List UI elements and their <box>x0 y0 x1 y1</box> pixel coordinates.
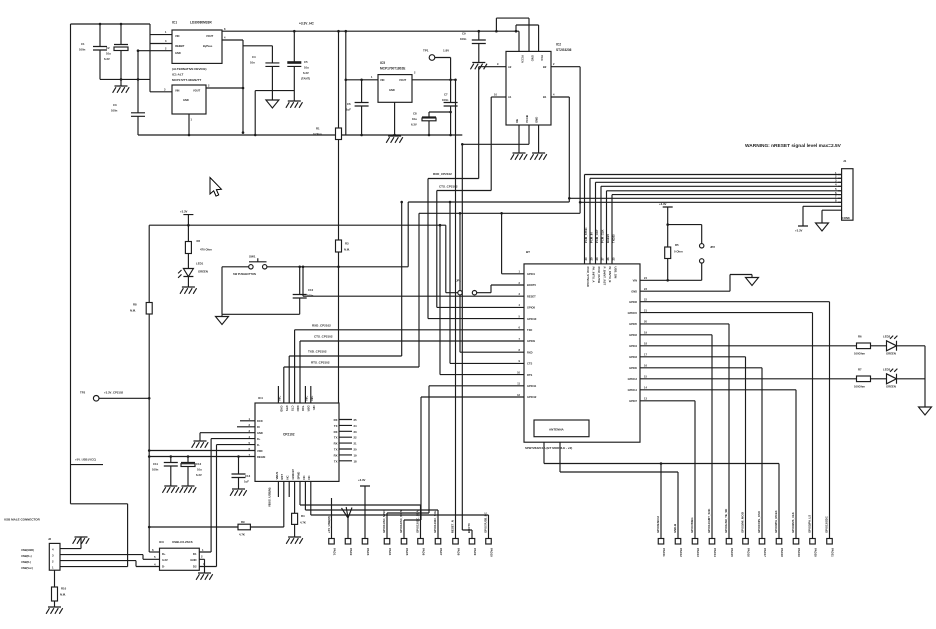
wire bus run 2 <box>419 213 580 367</box>
capacitor C6 <box>355 80 369 135</box>
svg-text:100Ohm: 100Ohm <box>854 385 866 389</box>
svg-text:6.3V: 6.3V <box>303 71 309 75</box>
capacitor C13 <box>232 457 246 490</box>
svg-text:D-: D- <box>257 443 260 447</box>
svg-text:(TANT): (TANT) <box>301 77 310 81</box>
svg-text:GPIO15/PL_USO: GPIO15/PL_USO <box>757 510 761 533</box>
svg-text:N/C: N/C <box>312 406 316 411</box>
wire IC1-ALT pin2 <box>206 87 243 89</box>
svg-text:ST2G3236: ST2G3236 <box>556 48 572 52</box>
connector J2 <box>49 543 60 570</box>
svg-text:1.8V: 1.8V <box>443 49 449 53</box>
power +3.3V tap LED1 <box>183 215 193 242</box>
BT pin numbers right <box>644 276 647 401</box>
regulator IC5 <box>378 75 412 103</box>
pad wire 1 <box>331 498 333 539</box>
svg-text:CTS: CTS <box>290 406 294 412</box>
svg-text:CTS: CTS <box>527 362 532 366</box>
wire J1 +3.3V <box>798 206 838 226</box>
svg-text:TP2: TP2 <box>80 391 86 395</box>
svg-text:C12: C12 <box>196 462 202 466</box>
svg-text:1uF: 1uF <box>244 480 249 484</box>
wire C1-C2 bottom <box>100 78 150 80</box>
wire CP2102 D- <box>217 444 256 446</box>
wire bus w4 <box>601 186 842 264</box>
svg-text:C1: C1 <box>81 42 85 46</box>
svg-text:TXD_CP2102: TXD_CP2102 <box>308 350 327 354</box>
svg-text:GPIO13: GPIO13 <box>628 377 638 381</box>
svg-text:C5: C5 <box>304 60 308 64</box>
svg-text:GPIO12/SC_MOSI: GPIO12/SC_MOSI <box>399 509 403 533</box>
svg-text:USB MALE CONNECTOR: USB MALE CONNECTOR <box>4 518 41 522</box>
svg-text:1uF: 1uF <box>346 108 351 112</box>
wire IC2 net chain down <box>462 144 472 538</box>
wire JP1 to BOOT0 <box>477 285 524 293</box>
wire CP2102 D+ <box>211 438 255 440</box>
svg-text:PCM_SYNC: PCM_SYNC <box>584 227 588 243</box>
wire BT pin18 to R6 <box>640 345 857 347</box>
wire BT pin10 RTS <box>440 374 524 376</box>
svg-text:BOOT0: BOOT0 <box>467 523 471 533</box>
pad labels right group <box>662 548 835 557</box>
wire module bottom gnd run <box>544 442 779 538</box>
wire +3.3V bus <box>149 224 446 226</box>
svg-text:GND: GND <box>631 289 637 293</box>
wire BT pin13 <box>640 401 695 539</box>
wire riser c <box>439 225 441 374</box>
svg-text:R10: R10 <box>61 587 67 591</box>
svg-text:+3.3V: +3.3V <box>358 478 366 482</box>
svg-text:24: 24 <box>354 424 358 428</box>
svg-text:GPIO3: GPIO3 <box>629 355 637 359</box>
svg-text:C13: C13 <box>245 474 251 478</box>
svg-text:10u: 10u <box>197 468 202 472</box>
svg-text:30: 30 <box>584 257 588 261</box>
svg-text:NC: NC <box>307 475 311 479</box>
wire BT pin19 <box>640 335 712 539</box>
svg-text:B2: B2 <box>543 65 547 69</box>
pad labels left group <box>332 548 493 557</box>
capacitor C7 <box>444 103 458 136</box>
svg-text:IC1: IC1 <box>172 21 177 25</box>
wire CP2102 GND <box>200 433 255 441</box>
wire BT pin6 TXD <box>295 330 524 403</box>
svg-text:26: 26 <box>606 257 610 261</box>
capacitor C1 <box>93 24 107 79</box>
level shifter IC2 <box>506 51 551 125</box>
wire bus w2 <box>590 178 842 264</box>
LED LED3 <box>887 374 897 384</box>
wire to JP2 <box>668 225 702 244</box>
LED LED1 <box>183 269 193 277</box>
svg-text:P_B4/NT_RST: P_B4/NT_RST <box>603 267 607 286</box>
wire module bottom run2 <box>560 442 678 538</box>
antenna <box>534 420 589 437</box>
svg-text:IC4: IC4 <box>258 396 263 400</box>
wire bus w6 <box>612 195 842 264</box>
connector J1 <box>842 169 853 221</box>
ground J1 <box>816 223 829 231</box>
svg-text:GPIO0: GPIO0 <box>629 366 637 370</box>
svg-text:DCD: DCD <box>257 419 263 423</box>
wire IC3 VBUS pin <box>149 551 159 553</box>
svg-text:IC2: IC2 <box>556 43 561 47</box>
node +5V_USB (VCC) <box>71 464 104 466</box>
wire IC2 pin A1 <box>491 96 506 98</box>
wire J2 gnd <box>60 537 81 549</box>
svg-text:NC: NC <box>302 475 306 479</box>
svg-text:USB(D+): USB(D+) <box>21 554 32 558</box>
svg-text:4.7K: 4.7K <box>239 533 245 537</box>
svg-text:OE: OE <box>515 119 519 123</box>
wire BT pin4 <box>437 306 524 308</box>
wire CP2102 REGIN <box>149 456 255 458</box>
svg-text:RST: RST <box>280 474 284 480</box>
svg-text:N/C: N/C <box>310 396 314 401</box>
svg-text:GPIO13/SDC: GPIO13/SDC <box>825 516 829 533</box>
svg-text:USB(GND): USB(GND) <box>21 548 34 552</box>
capacitor C12 <box>181 457 195 487</box>
svg-text:4.7K: 4.7K <box>300 521 306 525</box>
svg-text:PAD20: PAD20 <box>813 548 817 557</box>
wire TXD_CP2102 <box>289 356 402 403</box>
svg-text:23: 23 <box>354 430 358 434</box>
svg-text:VCC: VCC <box>540 55 544 61</box>
svg-text:TX: TX <box>334 448 338 452</box>
svg-text:PAD6: PAD6 <box>421 548 425 556</box>
svg-text:ByPass: ByPass <box>203 44 213 48</box>
wire bus w8 <box>580 201 842 203</box>
svg-text:R8: R8 <box>133 303 137 307</box>
svg-text:GND: GND <box>531 55 535 61</box>
wire IC3 out D- <box>199 445 216 567</box>
svg-text:+3.3V_HC: +3.3V_HC <box>299 22 314 26</box>
svg-text:R3: R3 <box>345 242 349 246</box>
svg-text:RXD: RXD <box>527 350 533 354</box>
wire IC3 gnd <box>199 559 204 573</box>
svg-text:RX: RX <box>334 430 338 434</box>
svg-text:GPIO5/MI_MOSI: GPIO5/MI_MOSI <box>741 512 745 533</box>
svg-text:RX: RX <box>334 442 338 446</box>
svg-text:LED3: LED3 <box>883 368 891 372</box>
svg-text:GND: GND <box>280 406 284 412</box>
svg-text:TXD: TXD <box>527 328 532 332</box>
resistor R2 <box>185 242 191 254</box>
wire BT pin5 <box>428 318 524 320</box>
svg-text:GPIO14/AMT_SCK: GPIO14/AMT_SCK <box>707 509 711 533</box>
wire +5V top rail <box>71 23 151 25</box>
svg-text:PAD3: PAD3 <box>366 548 370 556</box>
svg-text:CTS_CP2102: CTS_CP2102 <box>314 335 333 339</box>
svg-text:470 Ohm: 470 Ohm <box>200 248 212 252</box>
svg-text:PCM_IN: PCM_IN <box>590 232 594 243</box>
ground under C2 <box>120 79 122 86</box>
capacitor C11 <box>164 457 178 487</box>
svg-text:+3.3V: +3.3V <box>795 229 803 233</box>
capacitor C4 <box>265 46 279 100</box>
svg-text:R4: R4 <box>301 514 305 518</box>
svg-text:GND: GND <box>389 88 395 92</box>
ground under R4 <box>286 537 303 544</box>
svg-text:RXD: RXD <box>296 406 300 412</box>
pads row left <box>329 539 492 545</box>
svg-text:GPIO4: GPIO4 <box>629 344 637 348</box>
svg-text:+5V_USB(M): +5V_USB(M) <box>327 516 331 533</box>
regulator IC1 <box>172 30 222 63</box>
resistor R9 <box>238 524 250 530</box>
svg-text:VOUT: VOUT <box>193 89 201 93</box>
pad wire 3 +3.3V <box>360 486 370 539</box>
svg-text:RI: RI <box>257 425 260 429</box>
svg-text:GPIO1: GPIO1 <box>527 272 535 276</box>
svg-text:N.M.: N.M. <box>60 593 66 597</box>
svg-text:J2: J2 <box>48 537 52 541</box>
wire pad6 chain <box>300 481 421 538</box>
svg-text:GND: GND <box>175 51 181 55</box>
svg-text:PAD12: PAD12 <box>679 548 683 557</box>
svg-text:PAD21: PAD21 <box>830 548 834 557</box>
svg-text:C7: C7 <box>444 93 448 97</box>
power +3.3V tap R5 <box>663 207 673 247</box>
wire IC1 pin1 <box>150 34 172 36</box>
svg-text:A2: A2 <box>508 65 512 69</box>
svg-text:TXD: TXD <box>301 406 305 412</box>
svg-text:CON8: CON8 <box>842 216 850 220</box>
svg-text:VCCA: VCCA <box>521 55 525 63</box>
wire R4 chain <box>294 481 296 513</box>
wire C4C5 rail <box>255 91 294 135</box>
wire IC1-ALT pin3 <box>150 91 172 93</box>
svg-text:R6: R6 <box>858 335 862 339</box>
svg-text:N/C: N/C <box>278 396 282 401</box>
pushbutton SW1 <box>222 258 408 267</box>
svg-text:GND: GND <box>190 558 196 562</box>
ground under C9 <box>470 63 487 70</box>
svg-text:USBLC6-2SC6: USBLC6-2SC6 <box>172 540 193 544</box>
svg-text:C8: C8 <box>413 112 417 116</box>
wire IC1-ALT pin1 <box>188 114 190 135</box>
wire BT pin1 <box>502 213 524 273</box>
wire pad7 chain <box>305 481 438 538</box>
svg-text:GPIO11: GPIO11 <box>527 384 537 388</box>
wire node to C3 <box>137 51 139 113</box>
svg-text:27: 27 <box>601 257 605 261</box>
capacitor C5 <box>287 31 301 101</box>
ground under IC2 left <box>511 153 528 160</box>
ground under C4 <box>266 100 279 108</box>
svg-text:GPIO7: GPIO7 <box>629 399 637 403</box>
svg-text:MCP1727T-3302E/TT: MCP1727T-3302E/TT <box>172 78 201 82</box>
svg-text:D2: D2 <box>193 564 197 568</box>
svg-text:10u: 10u <box>106 52 111 56</box>
svg-text:ANTENNA: ANTENNA <box>549 428 564 432</box>
capacitor C10 <box>293 267 307 315</box>
jumper JP2 <box>700 244 704 248</box>
wire BT pin7 <box>300 341 524 403</box>
svg-text:VOUT: VOUT <box>399 78 407 82</box>
svg-text:VDD: VDD <box>257 449 263 453</box>
svg-text:PCM_OUT: PCM_OUT <box>595 229 599 243</box>
svg-text:19: 19 <box>354 453 358 457</box>
svg-text:PCM_OUT/B: PCM_OUT/B <box>597 267 601 283</box>
USB bridge IC4 CP2102 <box>255 403 339 481</box>
svg-text:C11: C11 <box>153 462 158 466</box>
svg-text:IC3: IC3 <box>159 540 164 544</box>
wire CP2102 DCD <box>240 420 255 422</box>
svg-text:R9: R9 <box>241 520 245 524</box>
wire RESET drop <box>302 267 304 296</box>
svg-text:SW1: SW1 <box>249 255 256 259</box>
wire RTS_CP2102 <box>284 367 419 403</box>
wire RXD level chain <box>428 67 479 319</box>
svg-text:GND.9V: GND.9V <box>291 469 295 480</box>
svg-text:RESET_N: RESET_N <box>451 520 455 533</box>
svg-text:+5V_USB (VCC): +5V_USB (VCC) <box>75 458 96 462</box>
svg-text:PAD1: PAD1 <box>332 548 336 556</box>
wire bus w3 <box>596 182 842 264</box>
wire BT pin14 <box>640 390 796 539</box>
pad net labels right group <box>656 509 829 533</box>
wire riser a <box>459 213 461 352</box>
svg-text:PAD19: PAD19 <box>797 548 801 557</box>
svg-text:JP2: JP2 <box>710 245 715 249</box>
resistor R1 0 Ohm <box>338 31 340 128</box>
svg-text:N/C: N/C <box>305 396 309 401</box>
capacitor C2 <box>114 24 128 79</box>
ground under C5 <box>286 101 303 108</box>
svg-text:PAD18: PAD18 <box>780 548 784 557</box>
wire IC2 bottom pins <box>462 125 538 153</box>
svg-text:C3: C3 <box>113 103 117 107</box>
svg-text:6.3V: 6.3V <box>104 57 110 61</box>
wire BT pin3 RESET <box>303 295 524 297</box>
pad wire 2 antenna fork <box>342 507 353 539</box>
svg-text:IN_PA/TX_B: IN_PA/TX_B <box>608 267 612 283</box>
svg-text:R1: R1 <box>316 127 320 131</box>
wire bus w1 <box>585 175 842 264</box>
svg-text:GPIO7/USB_DC: GPIO7/USB_DC <box>484 512 488 533</box>
wire IC1 pin2 <box>138 50 172 52</box>
ground LEDs <box>919 407 932 415</box>
wire bus to JP1 <box>446 225 458 293</box>
ground under IC5 <box>394 102 396 136</box>
wire CTS level chain <box>437 97 491 307</box>
ground under IC2 right <box>530 153 547 160</box>
testpoint TP2 <box>93 396 99 402</box>
ground under LED1 <box>180 287 197 294</box>
svg-text:SW PUSHBUTTON: SW PUSHBUTTON <box>233 272 256 276</box>
BT module SPBT2632C1A <box>524 264 640 442</box>
svg-text:0 Ohm: 0 Ohm <box>313 132 322 136</box>
svg-text:VCCB: VCCB <box>525 115 529 123</box>
svg-text:GPIO11/SC_MISO: GPIO11/SC_MISO <box>382 509 386 533</box>
svg-text:JP1: JP1 <box>456 279 461 283</box>
svg-text:PA_IN/TX_A: PA_IN/TX_A <box>592 267 596 283</box>
svg-text:GREEN: GREEN <box>886 352 896 356</box>
CP2102 left pin numbers <box>248 417 250 457</box>
mouse cursor <box>210 178 221 197</box>
svg-text:PAD16: PAD16 <box>746 548 750 557</box>
CP2102 top stub pins <box>278 386 310 403</box>
svg-text:R2: R2 <box>197 239 201 243</box>
resistor R10 N.M. <box>54 570 56 587</box>
svg-text:TXD25: TXD25 <box>612 234 616 243</box>
wire bus w7 <box>569 197 841 199</box>
svg-text:R5: R5 <box>675 243 679 247</box>
wire BT pin16 <box>640 368 762 539</box>
svg-text:USB_DM: USB_DM <box>614 267 618 279</box>
svg-text:+3.3V: +3.3V <box>659 202 667 206</box>
wire pad11 drop <box>660 464 662 539</box>
svg-text:D+: D+ <box>162 552 166 556</box>
svg-text:GPIO5: GPIO5 <box>629 322 637 326</box>
svg-text:A1: A1 <box>508 95 512 99</box>
svg-text:USB(D-): USB(D-) <box>21 560 31 564</box>
svg-text:GND: GND <box>183 98 189 102</box>
capacitor C3 <box>131 113 145 135</box>
svg-text:6.3V: 6.3V <box>411 123 417 127</box>
svg-text:PAD9: PAD9 <box>473 548 477 556</box>
wire CP2102 RI <box>237 426 255 428</box>
svg-text:3.3V: 3.3V <box>162 558 168 562</box>
wire riser b <box>449 202 451 363</box>
wire BT pin8 RXD <box>460 351 524 353</box>
svg-text:R7: R7 <box>858 368 862 372</box>
svg-text:GND-H: GND-H <box>673 524 677 533</box>
wire IC1 pin8 out <box>222 30 519 32</box>
svg-text:GPIO13/I2C_SDA: GPIO13/I2C_SDA <box>416 510 420 533</box>
pad net labels left group <box>382 509 488 533</box>
svg-text:C9: C9 <box>462 32 466 36</box>
svg-text:J1: J1 <box>843 159 847 163</box>
wire BT pin15 to R7 <box>640 378 857 380</box>
svg-text:C10: C10 <box>308 288 314 292</box>
wire BT pin12 <box>404 397 524 539</box>
svg-text:RTS: RTS <box>285 406 289 412</box>
svg-text:GREEN: GREEN <box>198 270 208 274</box>
CP2102 left pin names <box>257 419 265 459</box>
LED LED2 <box>887 341 897 351</box>
wire BT pin9 CTS <box>450 362 524 364</box>
svg-text:GND: GND <box>257 431 263 435</box>
svg-text:100n: 100n <box>111 109 118 113</box>
wire IC1 pin4 <box>222 40 272 133</box>
svg-text:GREEN: GREEN <box>886 385 896 389</box>
svg-text:6.3V: 6.3V <box>196 473 202 477</box>
wire BT pin20 <box>640 324 729 539</box>
svg-text:PAD17: PAD17 <box>763 548 767 557</box>
svg-text:28: 28 <box>595 257 599 261</box>
svg-text:RX: RX <box>334 418 338 422</box>
svg-text:10u: 10u <box>304 66 309 70</box>
wire J2 D- <box>60 561 160 567</box>
svg-text:PAD5: PAD5 <box>405 548 409 556</box>
resistor R8 N.M. on 3.3V drop <box>148 225 150 552</box>
svg-text:RXD_CP2102: RXD_CP2102 <box>433 172 452 176</box>
svg-text:18: 18 <box>354 459 358 463</box>
svg-text:29: 29 <box>590 257 594 261</box>
wire BT pin17 <box>640 357 746 539</box>
svg-text:10n: 10n <box>250 61 255 65</box>
svg-text:IC1-ALT: IC1-ALT <box>172 73 183 77</box>
wire BT pin21 <box>640 313 813 539</box>
svg-text:IC5: IC5 <box>380 61 385 65</box>
svg-text:GPIO8/ADC2: GPIO8/ADC2 <box>656 516 660 533</box>
svg-text:VBUS_USB(M): VBUS_USB(M) <box>268 488 272 507</box>
svg-text:100n: 100n <box>442 98 449 102</box>
svg-text:SPND: SPND <box>296 472 300 480</box>
svg-text:100n: 100n <box>79 48 86 52</box>
